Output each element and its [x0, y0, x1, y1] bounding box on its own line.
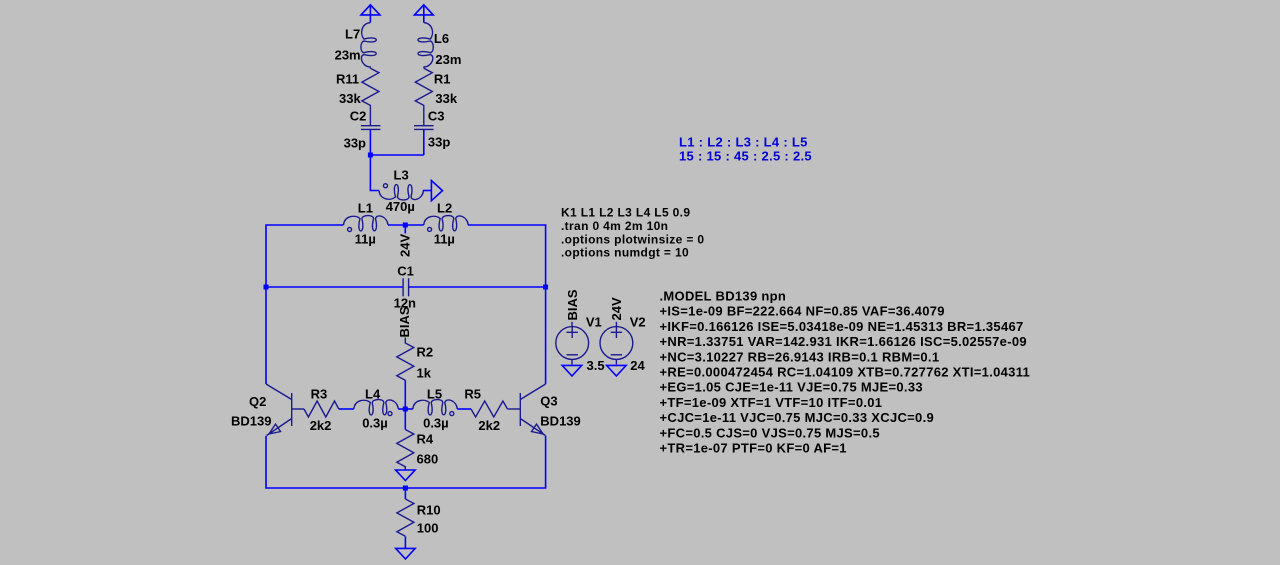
svg-text:+EG=1.05 CJE=1e-11 VJE=0.75 MJ: +EG=1.05 CJE=1e-11 VJE=0.75 MJE=0.33 [660, 380, 923, 395]
power flag arrow right [414, 5, 433, 23]
wire R10 to ground [404, 537, 406, 549]
svg-text:1k: 1k [417, 366, 432, 381]
wire C2 to junction [369, 130, 371, 156]
svg-text:BIAS: BIAS [397, 306, 412, 337]
svg-text:470µ: 470µ [386, 199, 415, 214]
svg-text:BD139: BD139 [231, 414, 271, 429]
svg-text:C3: C3 [428, 108, 445, 123]
svg-text:33p: 33p [344, 136, 366, 151]
svg-text:680: 680 [417, 452, 439, 467]
svg-text:L7: L7 [345, 27, 360, 42]
svg-text:+TR=1e-07 PTF=0 KF=0 AF=1: +TR=1e-07 PTF=0 KF=0 AF=1 [660, 441, 847, 456]
resistor R3 [304, 387, 339, 433]
power flag arrow left [361, 5, 380, 23]
wire junction down to L3 [370, 155, 379, 191]
svg-text:L6: L6 [434, 31, 449, 46]
svg-text:2k2: 2k2 [310, 418, 332, 433]
svg-text:L1 : L2 : L3 : L4 : L5: L1 : L2 : L3 : L4 : L5 [679, 135, 808, 150]
resistor R2 [397, 338, 433, 381]
svg-text:100: 100 [417, 521, 439, 536]
svg-text:+IKF=0.166126 ISE=5.03418e-09: +IKF=0.166126 ISE=5.03418e-09 NE=1.45313… [660, 319, 1024, 334]
inductor L2 [424, 201, 468, 247]
svg-text:2k2: 2k2 [478, 418, 500, 433]
wire node to R4 [404, 409, 406, 430]
svg-text:R3: R3 [311, 387, 328, 402]
svg-text:3.5: 3.5 [587, 358, 605, 373]
svg-text:23m: 23m [335, 48, 361, 63]
svg-text:L3: L3 [394, 168, 409, 183]
svg-text:24: 24 [630, 358, 645, 373]
wire L3 to port [423, 190, 432, 192]
svg-text:V1: V1 [586, 315, 602, 330]
resistor R10 [397, 499, 441, 536]
resistor R5 [464, 387, 507, 433]
svg-text:+RE=0.000472454 RC=1.04109 XTB: +RE=0.000472454 RC=1.04109 XTB=0.727762 … [660, 365, 1031, 380]
svg-text:+NR=1.33751 VAR=142.931 IKR=1.: +NR=1.33751 VAR=142.931 IKR=1.66126 ISC=… [660, 334, 1027, 349]
svg-text:K1 L1 L2 L3 L4 L5 0.9: K1 L1 L2 L3 L4 L5 0.9 [561, 206, 690, 220]
inductor L6 [418, 23, 462, 69]
text model BD139 [660, 289, 1031, 456]
output port arrow [431, 181, 442, 201]
svg-text:+IS=1e-09 BF=222.664 NF=0.85 V: +IS=1e-09 BF=222.664 NF=0.85 VAF=36.4079 [660, 304, 945, 319]
wire left rail top [266, 225, 344, 384]
wire L4 to node [398, 408, 413, 410]
node junction rail left [264, 285, 269, 290]
svg-text:C2: C2 [350, 108, 367, 123]
wire junction horizontal [370, 154, 423, 156]
svg-text:C1: C1 [397, 264, 414, 279]
svg-text:+NC=3.10227 RB=26.9143 IRB=0.1: +NC=3.10227 RB=26.9143 IRB=0.1 RBM=0.1 [660, 349, 940, 364]
svg-text:0.3µ: 0.3µ [362, 415, 388, 430]
wire C1 rail right [409, 286, 546, 288]
capacitor C2 [344, 108, 381, 150]
svg-text:+TF=1e-09 XTF=1 VTF=10 ITF=0.0: +TF=1e-09 XTF=1 VTF=10 ITF=0.01 [660, 395, 883, 410]
svg-text:.MODEL BD139 npn: .MODEL BD139 npn [660, 289, 787, 304]
transistor Q2 [231, 384, 304, 436]
resistor R1 [415, 68, 458, 126]
svg-text:R2: R2 [417, 345, 434, 360]
node junction row [403, 407, 408, 412]
svg-text:Q3: Q3 [540, 394, 557, 409]
svg-text:11µ: 11µ [434, 232, 455, 247]
svg-text:.options numdgt = 10: .options numdgt = 10 [561, 246, 689, 260]
svg-text:33k: 33k [435, 91, 457, 106]
node junction L1-L2 [403, 223, 408, 228]
svg-text:+CJC=1e-11 VJC=0.75 MJC=0.33 X: +CJC=1e-11 VJC=0.75 MJC=0.33 XCJC=0.9 [660, 410, 935, 425]
ground below V1 [562, 365, 582, 376]
svg-text:.tran 0 4m 2m 10n: .tran 0 4m 2m 10n [561, 219, 668, 233]
wire emitter Q2 to bottom rail [266, 436, 546, 488]
svg-text:R11: R11 [336, 72, 359, 87]
resistor R11 [336, 68, 379, 126]
wire L5 to R5 [457, 408, 471, 410]
svg-text:R5: R5 [464, 387, 481, 402]
voltage source V2 [600, 315, 646, 373]
wire C1 rail left [266, 286, 403, 288]
svg-text:23m: 23m [435, 52, 461, 67]
net label stub 24V [404, 225, 406, 234]
capacitor C3 [414, 108, 450, 149]
inductor L4 [354, 387, 398, 431]
wire right rail top [468, 225, 546, 384]
node junction bottom rail [403, 486, 408, 491]
svg-text:R4: R4 [417, 432, 434, 447]
wire R3 to L4 [339, 408, 354, 410]
wire C3 to junction [423, 130, 425, 156]
svg-text:BIAS: BIAS [565, 289, 580, 320]
svg-text:33k: 33k [339, 91, 361, 106]
svg-text:L5: L5 [427, 387, 442, 402]
inductor L5 [413, 387, 457, 431]
svg-text:Q2: Q2 [249, 394, 266, 409]
svg-text:L1: L1 [358, 201, 373, 216]
svg-text:L4: L4 [365, 387, 381, 402]
svg-text:15 : 15 : 45 : 2.5 : 2.5: 15 : 15 : 45 : 2.5 : 2.5 [679, 149, 812, 164]
svg-text:0.3µ: 0.3µ [423, 415, 449, 430]
wire L1 to node [388, 224, 424, 226]
node junction rail right [543, 285, 548, 290]
svg-text:R10: R10 [417, 503, 441, 518]
svg-text:24V: 24V [398, 234, 413, 257]
inductor L1 [344, 201, 388, 247]
svg-text:33p: 33p [428, 135, 450, 150]
ground below R10 [396, 548, 416, 559]
text comment inductor ratio [679, 135, 812, 164]
text spice directives [561, 206, 704, 260]
svg-text:+FC=0.5 CJS=0 VJS=0.75 MJS=0.5: +FC=0.5 CJS=0 VJS=0.75 MJS=0.5 [660, 425, 880, 440]
ground below R4 [396, 470, 416, 481]
svg-text:R1: R1 [434, 72, 451, 87]
transistor Q3 [508, 384, 581, 436]
inductor L7 [335, 23, 377, 69]
wire R2 to node [404, 380, 406, 409]
svg-text:V2: V2 [630, 315, 646, 330]
capacitor C1 [394, 264, 416, 311]
inductor L3 [379, 168, 423, 215]
node junction C2-C3 [368, 153, 373, 158]
svg-text:24V: 24V [609, 297, 624, 320]
voltage source V1 [556, 315, 605, 373]
ground below V2 [607, 365, 627, 376]
svg-text:BD139: BD139 [540, 414, 580, 429]
svg-text:.options plotwinsize = 0: .options plotwinsize = 0 [561, 232, 704, 246]
resistor R4 [397, 430, 438, 471]
wire rail to R10 [404, 488, 406, 499]
svg-text:L2: L2 [437, 201, 452, 216]
svg-text:11µ: 11µ [355, 232, 376, 247]
